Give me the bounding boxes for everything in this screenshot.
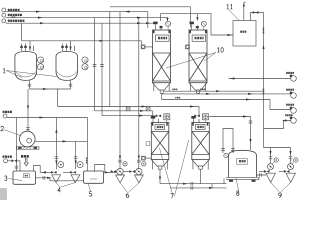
wire lower gas line (162, 100, 291, 110)
feed inlet circle F1 (2, 8, 6, 12)
label 10 (218, 48, 220, 53)
pump circle 9-2 (288, 164, 294, 170)
column 7B cone (192, 160, 210, 167)
wire 7B top to vessel8 (209, 117, 250, 151)
reactor R2 sight glasses (82, 57, 88, 63)
valve unit 4-1 (51, 171, 57, 174)
pointers to label 9 (271, 182, 291, 192)
pump P2 body (20, 131, 36, 147)
riser nozzles on R2 top (63, 44, 75, 52)
arrow down on 7A outlet (159, 177, 161, 181)
arrow down 9-1 (269, 151, 271, 155)
arrow on line3 into column 15A (146, 22, 151, 24)
ticks on transfer 1 (191, 182, 193, 186)
column 15B label smudge (195, 37, 197, 40)
label 7 (171, 194, 174, 199)
wire feed line 0 (top) (110, 7, 191, 28)
corner gray smudge (0, 188, 7, 200)
column 15A corner flanges (153, 30, 155, 33)
arrow on drain (43, 88, 48, 90)
DN label rotated on tank5 drop (86, 158, 88, 160)
tank T3 inner smudge (25, 175, 26, 177)
pointer from 11 to box (229, 10, 239, 21)
column 15B corner flanges (190, 30, 192, 33)
valve unit 6-2 (129, 170, 135, 173)
column 15B side instrument (186, 45, 190, 49)
feed F2 label (8, 14, 10, 16)
valve into 7A top (156, 115, 162, 118)
wire tank3 outlet right (36, 178, 84, 181)
flange ticks on vertical 94.6 (93, 65, 97, 67)
arrow on line A (142, 105, 147, 107)
label 5 (89, 192, 92, 197)
arrow down to pump (27, 106, 29, 110)
funnel 4-1 (52, 175, 61, 183)
right pump symbol 4 (291, 118, 297, 124)
funnel unit 6-2 ticks (137, 160, 141, 162)
arrow on line A right (190, 105, 195, 107)
DN smudge on 99.5 line (175, 97, 176, 99)
inlet circle F4 (4, 159, 8, 163)
arrow up on riser (55, 129, 57, 133)
column 7B label box (196, 125, 206, 130)
arrow into M1 (166, 18, 168, 22)
column 15B motor circle (201, 21, 206, 26)
wire drop into reactor R2 (70, 41, 72, 51)
column 15A label smudge (158, 37, 160, 40)
wire reactor R2 bottom outlet (69, 80, 72, 89)
label 6 (126, 193, 129, 197)
arrow on line3 mid (137, 22, 142, 24)
wire funnel 9 header (264, 147, 291, 149)
column 7B packing rules (192, 132, 210, 155)
arrow left on pump1 line (230, 77, 235, 79)
wire bottoms transfer line 1 (160, 183, 227, 185)
arrow on 88.5 line (216, 90, 221, 92)
valve unit 4-2 (70, 171, 76, 174)
wire pump4 loop (264, 121, 291, 129)
F4 label (3, 156, 5, 158)
wire vertical from feed1 (109, 12, 111, 107)
arrow on discharge (63, 140, 68, 142)
column 15A outlet stub (160, 90, 163, 93)
arrow into box11 (228, 34, 233, 36)
ticks on drop (15, 166, 19, 168)
column 7A label smudge (157, 126, 159, 128)
pump circle unit 4-2 (77, 162, 83, 168)
arrow on line1 left-pointing (125, 11, 130, 13)
wire into valve 9-1 (259, 170, 264, 172)
column 7A outlet stub (158, 166, 162, 169)
arrow on transfer 2 (209, 187, 214, 189)
column 7B top fittings (191, 116, 195, 119)
box 11 inner smudge (240, 31, 242, 33)
right pump symbol 3 (291, 108, 297, 114)
pump P2 inner circle (27, 138, 32, 143)
right pump symbol 2 (291, 93, 297, 99)
wire drop to tank3 left (15, 118, 17, 172)
wire drop into reactor R1 (29, 41, 31, 51)
inlet circle F5 fresh water (3, 114, 7, 118)
funnel 6-2 (135, 175, 144, 183)
label 11 (227, 4, 229, 9)
valve on loop (253, 11, 259, 14)
wire overhead header to box11 (161, 14, 233, 35)
gauge unit 6-2 (142, 162, 146, 166)
label 1 (3, 68, 5, 73)
label 2 (1, 126, 4, 131)
arrow on line2 (38, 17, 43, 19)
column 7B body (192, 123, 210, 160)
nozzle valves R2 (61, 46, 63, 48)
vessel8 vent loop (223, 129, 233, 154)
pointer lines to reactors label 1 (6, 71, 57, 78)
makeup water block arrow (24, 159, 28, 166)
wire box11 vent (244, 2, 246, 20)
arrow up on riser (262, 45, 264, 49)
arrow on line2 mid (137, 17, 142, 19)
vent arrowhead (243, 3, 245, 7)
wire box11 right loop (251, 13, 264, 21)
column 7A label box (155, 125, 165, 130)
column 15A label box (156, 35, 169, 41)
label 8 (237, 191, 239, 193)
wire vessel8 to funnels 9 (257, 173, 267, 177)
valve on F4 line (12, 159, 18, 162)
reactor R1 inner arc (16, 72, 37, 78)
pointers to label 4 (56, 183, 75, 187)
wire to pump1 (229, 78, 291, 80)
arrow on tank3 outlet (47, 177, 52, 179)
funnel unit 6-1 ticks (118, 160, 122, 162)
gauge unit 6-1 (123, 162, 127, 166)
funnel 6-1 (116, 175, 125, 183)
label pump4 (285, 114, 287, 116)
arrow down unit 6-1 (119, 156, 121, 160)
pump P2 inlet coupling (26, 128, 30, 130)
arrow down into vessel8 (249, 139, 251, 143)
pointer from 8 (236, 178, 239, 191)
funnel unit 4-1 return line (40, 171, 53, 173)
right pump symbol 1 (291, 76, 297, 82)
valve unit 6-1 (111, 170, 117, 173)
column 7A body (151, 123, 169, 160)
arrow on that line (243, 115, 248, 117)
label 3 (4, 176, 7, 181)
arrow on transfer 1 (183, 183, 188, 185)
column 7A top instrument box (164, 114, 170, 120)
wire into valve 9-2 (279, 170, 284, 172)
wire middle transfer line A (58, 107, 200, 116)
ticks on tank3 outlet (43, 176, 45, 180)
funnel unit 4-2 feed (74, 141, 78, 169)
funnel 9-1 (266, 173, 275, 182)
arrow on 99.5 line (246, 98, 251, 100)
arrows on 92.8 line (206, 93, 253, 95)
valve 9-1 (264, 170, 270, 173)
wire F5 header (7, 117, 87, 119)
column 15A motor circle (166, 21, 171, 26)
wire F4 to tank3 (8, 161, 21, 171)
label 9 (279, 193, 282, 197)
arrow on F5 header (40, 116, 45, 118)
funnel unit 4-1 feed (55, 141, 59, 169)
wire pump P2 discharge (35, 140, 87, 142)
wire drop to tank5 (86, 118, 88, 172)
wire 7B outlet down (200, 169, 202, 184)
reactor R2 vessel (56, 52, 78, 81)
column 15B legs (190, 83, 205, 91)
wire feed line 1 (6, 12, 148, 28)
wire 15B outlet line to right pump 2 (162, 92, 291, 95)
arrow left on return (42, 171, 47, 173)
column 15B outlet stub (197, 90, 200, 93)
wire middle transfer line B (95, 111, 153, 116)
feed inlet circle F2 (2, 13, 6, 17)
gauge unit 9-1 (274, 158, 278, 162)
column 15B cone (189, 83, 207, 90)
wire riser from pump discharge (55, 118, 57, 142)
tank T5 inner mark (90, 178, 97, 180)
wire vertical from feed3 (101, 23, 103, 115)
vessel 8 base (226, 177, 259, 179)
wire feed line 3 (6, 22, 156, 24)
tick on drop (249, 121, 253, 123)
arrow into R1 (29, 47, 31, 51)
column 7A packing X (151, 132, 169, 155)
pump circle unit 6-1 (117, 168, 123, 174)
wire column bottoms line to box11 riser (162, 91, 264, 99)
column 15A legs (154, 83, 169, 91)
column 7A side instrument (142, 156, 146, 160)
column 15B packing rules (189, 53, 207, 81)
column 7B label smudge (197, 126, 199, 128)
unit 6 link line (123, 171, 129, 173)
vessel 8 inner smudge (239, 160, 241, 162)
vessel 8 body (229, 150, 257, 177)
column 7B legs (193, 160, 208, 170)
column 7B outlet stub (199, 166, 203, 169)
funnel 4-2 (71, 175, 80, 183)
unit 4-2 line (63, 171, 72, 173)
pump circle 9-1 (268, 164, 274, 170)
wire reactor drain line (30, 88, 71, 90)
wire dropper to funnel unit 6-1 (119, 12, 121, 170)
gauge unit 9-2 (294, 158, 298, 162)
arrow on line C (139, 115, 144, 117)
reactor R2 inner arc (57, 72, 77, 78)
inline valve box on line B right (146, 107, 150, 111)
reactor R1 sight glasses (38, 57, 44, 63)
box 11 (233, 21, 256, 47)
DN50 rotated smudge 2 (263, 89, 265, 91)
column 15A body (153, 30, 171, 83)
column 7A legs (152, 160, 167, 170)
reactor R1 vessel (15, 52, 37, 81)
pump P2 feet (18, 146, 21, 149)
wire feed line 2 (6, 18, 168, 21)
pointers from label 10 (166, 53, 216, 69)
vessel 8 inner label box (237, 159, 248, 165)
label pump1 (286, 72, 288, 74)
flange ticks on vertical 102 (100, 65, 104, 67)
pump circle unit 6-2 (136, 168, 142, 174)
wire middle transfer line C (102, 115, 155, 117)
ticks on vent loop (221, 149, 235, 151)
drop into M2 (196, 14, 198, 21)
column 7A cone (151, 160, 169, 167)
pump circle unit 4-1 (58, 162, 64, 168)
column 7A side box (146, 142, 150, 146)
wire drain drop to line (57, 89, 59, 107)
arrow down unit 6-2 (138, 156, 140, 160)
column 7B top instrument box (203, 114, 209, 120)
wire 7A outlet down (159, 169, 161, 184)
arrow on pump4 line (282, 119, 287, 121)
column 15B label box (192, 35, 205, 41)
funnel 9-2 (286, 173, 295, 182)
column 15A packing rules (153, 53, 171, 81)
pointers from label 7 (160, 140, 189, 196)
column 15A top fittings (153, 22, 157, 25)
wire reactor R1 bottom outlet (28, 80, 31, 89)
pointer to tank 3 (9, 179, 23, 181)
column 15A packing X (153, 53, 171, 81)
wire right main riser DN50 (263, 13, 265, 148)
F5 label (3, 111, 5, 113)
wire bracket vertical (212, 179, 224, 188)
wire drop to pump P2 (27, 89, 29, 131)
pointer to tank5 (88, 184, 91, 192)
label 4 (58, 188, 61, 193)
arrow (105, 171, 110, 173)
arrow on reactor header left-pointing (100, 40, 105, 42)
arrow down unit 4-2 (75, 161, 77, 165)
inline valve box on line B left (126, 107, 130, 111)
tank T3 inner box (23, 174, 29, 178)
wire return riser into tank3 (34, 166, 41, 173)
column 7B packing X (192, 132, 210, 155)
riser nozzles on R1 top (22, 44, 34, 52)
pointer to pump 2 (4, 130, 21, 136)
pump P2 base (17, 147, 39, 149)
tank T3 (13, 171, 36, 184)
valve into 7B top (194, 115, 200, 118)
wire tank5 to unit 6-1 (105, 171, 117, 173)
vessel 8 left instrument (224, 153, 228, 157)
column 15B packing X (189, 53, 207, 81)
column 15A cone (153, 83, 171, 90)
column 15B top fittings (190, 22, 194, 25)
column 7A top fittings (151, 116, 155, 119)
arrow on line1 right (36, 11, 41, 13)
makeup water label (21, 155, 23, 158)
wire vertical from feed2 (94, 18, 96, 111)
wire reactor header (22, 41, 142, 45)
wire drop to reactor header (21, 23, 23, 41)
ticks on transfer 2 (191, 186, 193, 190)
feed inlet circle F3 (2, 19, 6, 23)
valve 9-2 (284, 170, 290, 173)
DN50 rotated smudge (263, 28, 265, 30)
feed F1 label (8, 9, 10, 11)
wire tank5 draw bracket (95, 165, 105, 173)
arrow on line B (140, 110, 145, 112)
nozzle valves R1 (20, 46, 22, 48)
arrow down unit 4-1 (55, 161, 57, 165)
feed F3 label (8, 20, 10, 22)
wire bottoms transfer line 2 (170, 187, 227, 189)
column 7A corner flanges (152, 123, 154, 126)
label pump3 (286, 104, 288, 106)
funnel unit 9-1 feed (269, 148, 273, 164)
vessel 8 feet (229, 180, 233, 182)
tank T5 (84, 171, 104, 183)
label pump2 (286, 89, 288, 91)
arrow into R2 (69, 47, 71, 51)
arrow down 9-2 (289, 151, 291, 155)
column 7B corner flanges (192, 123, 194, 126)
DN smudges on line (172, 89, 173, 91)
funnel unit 9-2 feed (289, 148, 293, 164)
pointers to label 6 (120, 183, 139, 192)
wire dropper to funnel unit 6-2 (138, 18, 140, 170)
arrow on line3 (40, 22, 45, 24)
column 15A side instrument (141, 45, 145, 49)
column 15B body (189, 30, 207, 83)
column 7A packing rules (151, 132, 169, 155)
